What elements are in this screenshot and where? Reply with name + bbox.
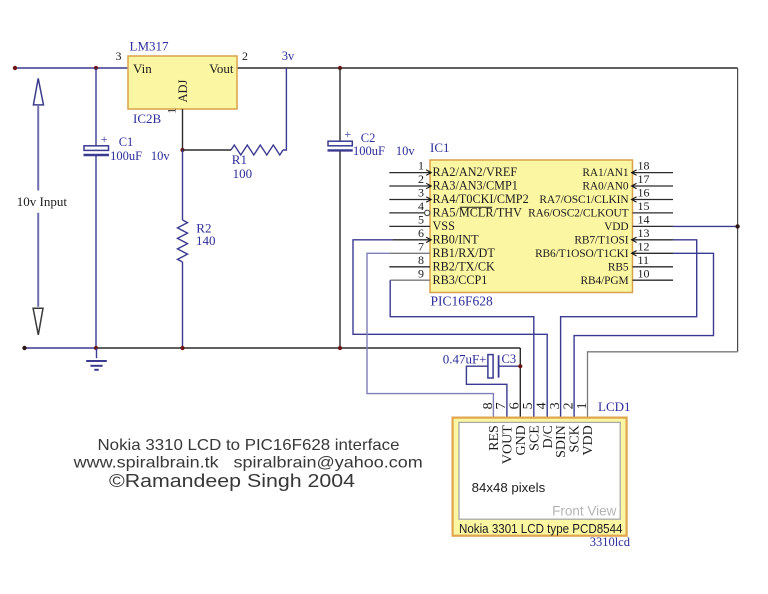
svg-text:17: 17 — [638, 172, 650, 186]
wire: 10v input top rail (left segment) — [15, 67, 128, 69]
junction: VDD tap on 3v vertical — [735, 224, 739, 228]
svg-text:12: 12 — [638, 239, 650, 253]
pin 11 stub — [633, 266, 674, 268]
capacitor C1 bottom lead — [95, 156, 97, 348]
ground symbol bar 3 — [94, 369, 98, 371]
svg-text:13: 13 — [638, 226, 650, 240]
svg-text:9: 9 — [418, 266, 424, 280]
10v input arrow head (down) — [33, 308, 43, 335]
node A: ADJ/R1/R2 junction — [180, 148, 184, 152]
svg-text:10v Input: 10v Input — [17, 194, 68, 209]
node: input + terminal dot — [13, 66, 17, 70]
ground symbol stem — [96, 348, 98, 358]
pin 2 stub — [389, 185, 430, 187]
svg-text:RA6/OSC2/CLKOUT: RA6/OSC2/CLKOUT — [528, 208, 629, 220]
svg-text:8: 8 — [418, 253, 424, 267]
svg-text:PIC16F628: PIC16F628 — [431, 294, 494, 309]
svg-text:©Ramandeep Singh 2004: ©Ramandeep Singh 2004 — [109, 470, 355, 491]
LCD1 screen inner rectangle — [459, 422, 620, 519]
pin 17 stub — [633, 185, 674, 187]
junction C1 tap on input rail — [94, 66, 98, 70]
wire: C3 left plate to LCD VOUT (pin 7) — [466, 366, 507, 417]
pin 15 stub — [633, 212, 674, 214]
pin arrow (input) row 6 left — [426, 237, 431, 242]
svg-text:10v: 10v — [396, 144, 416, 158]
svg-text:3: 3 — [116, 49, 122, 63]
pin arrow (input) row 1 left — [426, 170, 431, 175]
pin arrow (input) row 17 right — [632, 183, 637, 188]
pin 10 stub — [633, 279, 674, 281]
svg-text:VSS: VSS — [433, 219, 456, 233]
pin arrow (input) row 2 left — [426, 183, 431, 188]
svg-text:LCD1: LCD1 — [598, 399, 631, 414]
wire: 3v rail from LM317 Vout to right edge — [237, 67, 738, 69]
svg-text:R1: R1 — [232, 152, 247, 167]
wire: ground drop to LCD pin 6 — [519, 348, 521, 418]
wire: C3 right plate to ground drop — [499, 365, 521, 367]
svg-text:IC1: IC1 — [430, 140, 450, 155]
svg-text:Nokia 3301 LCD type PCD8544: Nokia 3301 LCD type PCD8544 — [459, 521, 623, 536]
ground symbol bar 2 — [90, 365, 102, 367]
svg-text:RB0/INT: RB0/INT — [433, 232, 480, 246]
svg-text:+: + — [101, 132, 108, 146]
wire: junction to R1 left lead — [183, 149, 232, 151]
svg-text:+: + — [344, 127, 351, 141]
junction: C3/ground/LCD GND node — [518, 364, 522, 368]
svg-text:1: 1 — [165, 108, 179, 114]
pin 6 stub (RB0) — [393, 239, 430, 241]
wire: 3v to LCD VDD (pin 1), gray — [588, 352, 738, 418]
pin arrow (input) row 12 right — [632, 251, 637, 256]
wire: junction down to R2 — [182, 150, 184, 220]
pin arrow (input) row 16 right — [632, 197, 637, 202]
svg-text:10v: 10v — [151, 149, 171, 163]
pin 8 stub — [389, 266, 430, 268]
svg-text:2: 2 — [418, 172, 424, 186]
capacitor C3 positive plate — [488, 355, 493, 378]
svg-text:10: 10 — [638, 266, 650, 280]
voltage regulator IC2B LM317 body — [128, 56, 237, 109]
svg-text:100: 100 — [233, 166, 253, 181]
pin arrow (input) row 18 right — [632, 170, 637, 175]
svg-text:IC2B: IC2B — [133, 111, 162, 126]
svg-text:0.47uF+: 0.47uF+ — [443, 352, 487, 367]
wire: RB7/T1OSI pin 13 to LCD SDIN (pin 3) — [561, 240, 697, 418]
pin 18 stub — [633, 172, 674, 174]
wire: RB6/T1OSO pin 12 to LCD SCK (pin 2) — [574, 253, 713, 417]
svg-text:C1: C1 — [119, 135, 134, 149]
svg-text:RA2/AN2/VREF: RA2/AN2/VREF — [433, 165, 518, 179]
LCD1 module outer body — [453, 418, 627, 536]
svg-text:4: 4 — [418, 199, 424, 213]
pin 4 stub (RA5/MCLR) with inverting bubble — [389, 212, 424, 214]
svg-text:LM317: LM317 — [130, 39, 170, 54]
svg-text:C2: C2 — [361, 131, 376, 145]
capacitor C2 negative plate — [328, 149, 353, 151]
wire: ground bus main segment — [97, 347, 520, 349]
capacitor C1 positive plate — [84, 146, 109, 151]
svg-text:84x48 pixels: 84x48 pixels — [472, 480, 546, 495]
svg-text:18: 18 — [638, 159, 650, 173]
svg-text:C3: C3 — [502, 352, 517, 366]
svg-text:15: 15 — [638, 199, 650, 213]
capacitor C1 negative plate — [84, 154, 110, 156]
wire: R2 bottom lead to ground bus — [182, 262, 184, 348]
svg-text:5: 5 — [418, 213, 424, 227]
svg-text:Nokia 3310 LCD to PIC16F628 in: Nokia 3310 LCD to PIC16F628 interface — [98, 437, 400, 454]
svg-text:2: 2 — [242, 49, 248, 63]
svg-text:Vin: Vin — [133, 61, 152, 76]
wire: VDD pin 14 to 3v rail — [673, 225, 738, 227]
svg-text:RB2/TX/CK: RB2/TX/CK — [433, 259, 495, 273]
svg-text:RB4/PGM: RB4/PGM — [580, 275, 628, 287]
svg-text:Vout: Vout — [209, 61, 234, 76]
junction C2 tap on 3v rail — [338, 66, 342, 70]
pin 9 stub (RB3) — [390, 279, 430, 281]
svg-text:100uF: 100uF — [353, 144, 385, 158]
wire: R1 right lead up to 3v rail — [283, 68, 286, 150]
junction: C2 on ground bus — [338, 346, 342, 350]
pin 3 stub — [389, 199, 430, 201]
svg-text:14: 14 — [638, 213, 650, 227]
svg-text:RB6/T1OSO/T1CKI: RB6/T1OSO/T1CKI — [535, 248, 629, 260]
svg-text:RA1/AN1: RA1/AN1 — [582, 167, 629, 179]
pin arrow (input) row 13 right — [632, 237, 637, 242]
capacitor C2 positive plate — [328, 141, 352, 146]
junction: R2 on ground bus — [180, 346, 184, 350]
svg-text:1: 1 — [418, 159, 424, 173]
svg-text:3: 3 — [418, 186, 424, 200]
wire: ground bus left segment — [25, 347, 98, 349]
svg-text:RA7/OSC1/CLKIN: RA7/OSC1/CLKIN — [539, 194, 628, 206]
capacitor C2 bottom lead — [339, 152, 341, 349]
svg-text:RB1/RX/DT: RB1/RX/DT — [433, 246, 496, 260]
10v input arrow shaft upper part — [37, 105, 39, 191]
resistor R1 zigzag — [231, 145, 283, 155]
capacitor C1 top lead — [95, 68, 97, 146]
pin 12 stub — [633, 252, 674, 254]
svg-text:16: 16 — [638, 186, 650, 200]
svg-text:Front View: Front View — [552, 504, 617, 519]
svg-text:6: 6 — [418, 226, 424, 240]
svg-text:140: 140 — [196, 233, 216, 248]
ground symbol bar 1 — [86, 360, 107, 362]
pin 1 stub — [389, 172, 430, 174]
wire: RB3/CCP1 pin 9 to LCD SCE (pin 5) — [390, 280, 534, 417]
svg-text:100uF: 100uF — [110, 149, 142, 163]
svg-text:RA0/AN0: RA0/AN0 — [582, 181, 629, 193]
pin 1 wire from ADJ down to R1/R2 junction — [182, 109, 184, 150]
svg-text:RA4/T0CKI/CMP2: RA4/T0CKI/CMP2 — [433, 192, 529, 206]
svg-text:RB3/CCP1: RB3/CCP1 — [433, 273, 488, 287]
pin 16 stub — [633, 199, 674, 201]
svg-text:3310lcd: 3310lcd — [590, 535, 631, 549]
10v input arrow head (up) — [33, 78, 43, 105]
svg-text:VDD: VDD — [581, 425, 596, 455]
svg-text:RB5: RB5 — [608, 261, 629, 273]
pin 5 stub — [389, 225, 430, 227]
capacitor C3 negative plate — [498, 355, 500, 377]
svg-text:VDD: VDD — [604, 221, 628, 233]
svg-text:11: 11 — [638, 253, 650, 267]
svg-text:1: 1 — [575, 402, 590, 409]
svg-text:7: 7 — [418, 239, 424, 253]
svg-text:RB7/T1OSI: RB7/T1OSI — [574, 234, 628, 246]
capacitor C2 top lead — [339, 68, 341, 141]
microcontroller IC1 PIC16F628 body — [430, 160, 633, 293]
pin 13 stub — [633, 239, 674, 241]
10v input arrow shaft lower part — [37, 213, 39, 307]
pin 14 stub — [633, 225, 674, 227]
svg-text:3v: 3v — [282, 49, 295, 63]
wire: RB1/RX pin 7 to LCD RES (pin 8) — [367, 253, 493, 417]
wire: RB0/INT pin 6 to LCD D/C (pin 4) — [353, 240, 547, 418]
node: ground bus left end dot — [22, 346, 26, 350]
svg-text:ADJ: ADJ — [176, 79, 190, 102]
pin 7 stub (RB1) — [390, 252, 430, 254]
resistor R2 zigzag — [178, 220, 188, 262]
svg-text:RA3/AN3/CMP1: RA3/AN3/CMP1 — [433, 179, 518, 193]
wire: 3v rail right-side vertical drop — [737, 68, 739, 352]
junction: C1 on ground bus — [94, 346, 98, 350]
pin arrow (input) row 3 left — [426, 197, 431, 202]
